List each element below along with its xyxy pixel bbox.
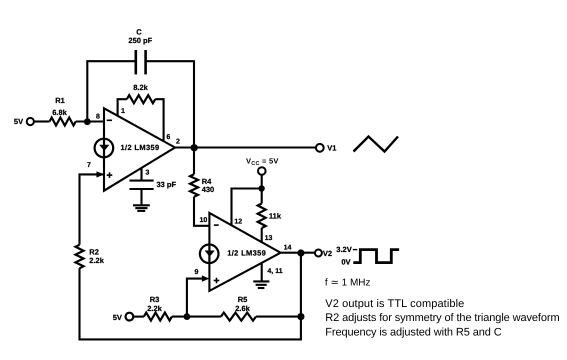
svg-text:2: 2 bbox=[176, 138, 180, 145]
svg-text:VCC = 5V: VCC = 5V bbox=[246, 156, 279, 167]
svg-text:R3: R3 bbox=[150, 295, 160, 304]
svg-text:R2: R2 bbox=[89, 247, 99, 256]
svg-text:8.2k: 8.2k bbox=[133, 83, 148, 92]
svg-text:33 pF: 33 pF bbox=[157, 180, 177, 189]
svg-text:1/2 LM359: 1/2 LM359 bbox=[227, 248, 266, 257]
svg-text:7: 7 bbox=[87, 162, 91, 169]
svg-text:8: 8 bbox=[96, 113, 100, 120]
svg-text:9: 9 bbox=[195, 269, 199, 276]
svg-text:V1: V1 bbox=[327, 143, 336, 152]
svg-text:2.2k: 2.2k bbox=[147, 304, 162, 313]
svg-text:1: 1 bbox=[121, 108, 125, 115]
svg-text:Frequency is adjusted with R5: Frequency is adjusted with R5 and C bbox=[325, 327, 501, 339]
svg-text:5V: 5V bbox=[14, 117, 23, 126]
svg-text:6: 6 bbox=[166, 134, 170, 141]
svg-text:250 pF: 250 pF bbox=[128, 36, 152, 45]
svg-text:12: 12 bbox=[234, 218, 242, 225]
svg-text:2.6k: 2.6k bbox=[235, 304, 250, 313]
svg-text:3.2V: 3.2V bbox=[336, 245, 351, 254]
svg-text:10: 10 bbox=[200, 217, 208, 224]
svg-text:2.2k: 2.2k bbox=[89, 256, 104, 265]
svg-text:0V: 0V bbox=[341, 258, 350, 267]
svg-text:f ≃ 1 MHz: f ≃ 1 MHz bbox=[325, 278, 371, 289]
svg-text:13: 13 bbox=[265, 235, 273, 242]
svg-text:14: 14 bbox=[284, 245, 292, 252]
svg-text:R2 adjusts for symmetry of the: R2 adjusts for symmetry of the triangle … bbox=[325, 312, 559, 324]
svg-text:5V: 5V bbox=[113, 313, 122, 322]
svg-text:V2: V2 bbox=[323, 249, 332, 258]
svg-text:11k: 11k bbox=[269, 212, 282, 221]
svg-text:3: 3 bbox=[146, 170, 150, 177]
svg-text:R5: R5 bbox=[238, 295, 248, 304]
svg-text:4, 11: 4, 11 bbox=[267, 268, 282, 275]
svg-text:430: 430 bbox=[202, 185, 215, 194]
svg-text:6.8k: 6.8k bbox=[52, 108, 67, 117]
svg-text:1/2 LM359: 1/2 LM359 bbox=[121, 143, 160, 152]
svg-text:R1: R1 bbox=[55, 96, 65, 105]
svg-text:V2 output is TTL compatible: V2 output is TTL compatible bbox=[325, 298, 464, 310]
